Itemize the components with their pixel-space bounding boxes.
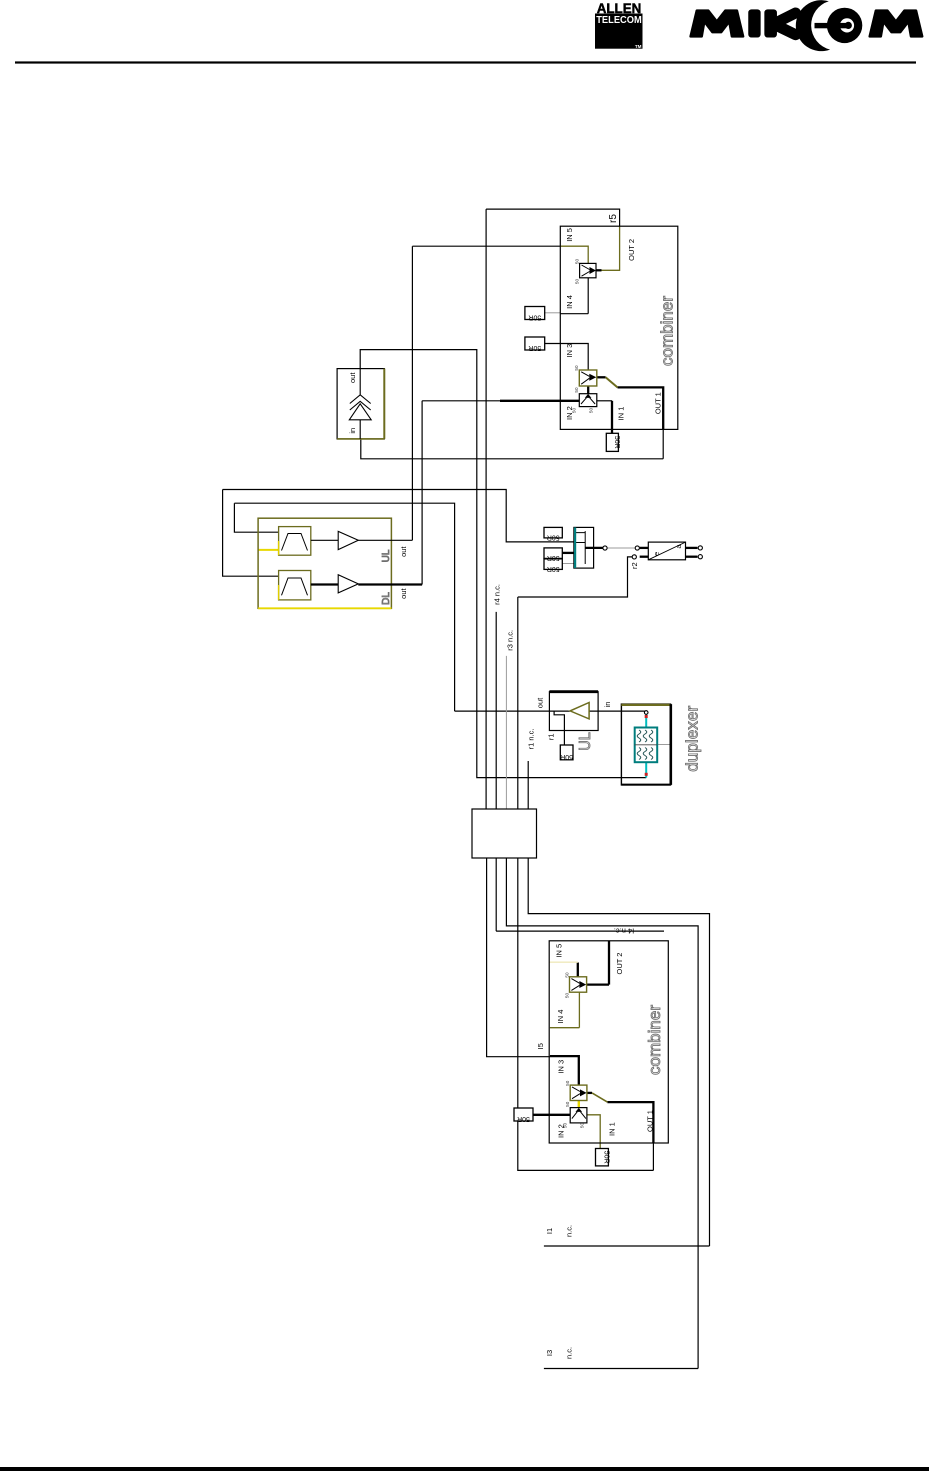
svg-text:50R: 50R (528, 344, 541, 351)
svg-text:50R: 50R (602, 1151, 609, 1164)
svg-text:out: out (399, 587, 408, 598)
svg-text:50R: 50R (560, 753, 573, 760)
svg-text:ALLEN: ALLEN (597, 0, 642, 16)
svg-text:TELECOM: TELECOM (596, 15, 642, 26)
svg-text:50: 50 (574, 387, 579, 393)
svg-text:r2: r2 (630, 562, 639, 569)
svg-text:out: out (536, 697, 545, 708)
svg-text:50: 50 (589, 408, 594, 414)
svg-text:50: 50 (564, 993, 569, 999)
svg-text:IN 3: IN 3 (565, 344, 574, 358)
svg-text:UL: UL (381, 549, 392, 562)
svg-text:IN 4: IN 4 (565, 295, 574, 309)
svg-text:r5: r5 (608, 214, 619, 223)
svg-text:UL: UL (577, 732, 594, 751)
svg-text:50R: 50R (528, 314, 541, 321)
svg-text:duplexer: duplexer (683, 705, 702, 771)
svg-text:50: 50 (564, 972, 569, 978)
svg-text:r4 n.c.: r4 n.c. (492, 584, 501, 605)
svg-text:50R: 50R (517, 1115, 530, 1122)
svg-text:I1: I1 (545, 1228, 554, 1234)
svg-text:r1 n.c.: r1 n.c. (527, 729, 536, 750)
svg-text:e: e (652, 552, 661, 556)
svg-text:I3: I3 (545, 1350, 554, 1356)
svg-text:n.c.: n.c. (565, 1225, 574, 1237)
svg-text:50: 50 (575, 259, 580, 265)
svg-text:DL: DL (381, 592, 392, 605)
svg-text:IN 3: IN 3 (556, 1060, 565, 1074)
svg-text:I4 n.c.: I4 n.c. (614, 927, 634, 936)
svg-text:out: out (399, 546, 408, 557)
svg-text:50R: 50R (547, 565, 560, 572)
svg-text:IN 1: IN 1 (608, 1122, 617, 1136)
svg-text:50: 50 (565, 1080, 570, 1086)
svg-text:TM: TM (635, 44, 642, 49)
svg-text:50R: 50R (547, 533, 560, 540)
svg-text:50R: 50R (547, 554, 560, 561)
svg-text:IN 5: IN 5 (565, 228, 574, 242)
svg-text:50: 50 (575, 279, 580, 285)
svg-text:50: 50 (579, 1123, 584, 1129)
svg-text:OUT 2: OUT 2 (627, 239, 636, 261)
svg-text:n.c.: n.c. (565, 1347, 574, 1359)
svg-text:OUT 1: OUT 1 (645, 1110, 654, 1132)
svg-text:OUT 1: OUT 1 (654, 392, 663, 414)
svg-text:IN 4: IN 4 (556, 1010, 565, 1024)
svg-text:out: out (348, 372, 357, 383)
svg-text:r1: r1 (547, 733, 556, 740)
svg-text:combiner: combiner (646, 1004, 664, 1075)
svg-text:50: 50 (574, 365, 579, 371)
svg-text:combiner: combiner (659, 295, 677, 366)
svg-text:in: in (603, 702, 612, 708)
svg-text:IN 1: IN 1 (617, 407, 626, 421)
svg-text:IN 5: IN 5 (555, 944, 564, 958)
svg-text:in: in (348, 428, 357, 434)
svg-text:I5: I5 (536, 1043, 545, 1049)
svg-text:r3 n.c.: r3 n.c. (506, 630, 515, 651)
svg-text:50: 50 (562, 1123, 567, 1129)
svg-text:OUT 2: OUT 2 (615, 953, 624, 975)
svg-text:50: 50 (572, 408, 577, 414)
svg-text:50: 50 (565, 1101, 570, 1107)
svg-text:50R: 50R (613, 436, 620, 449)
